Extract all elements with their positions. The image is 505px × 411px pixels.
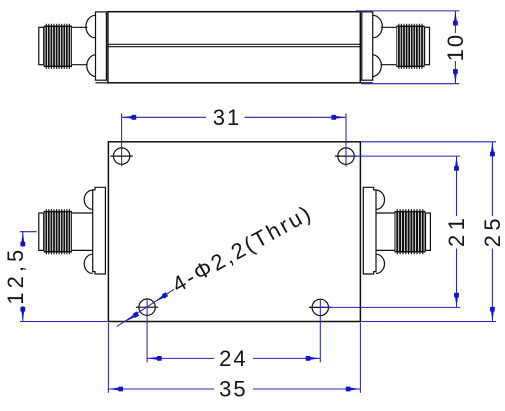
dimension 21 arrow up — [454, 156, 459, 171]
dimension 12,5 line — [22, 232, 24, 322]
main view right flange dome top — [376, 190, 385, 209]
dimension 10 line — [454, 11, 456, 84]
dimension 25 arrow up — [490, 142, 495, 157]
svg-text:12,5: 12,5 — [3, 246, 28, 305]
side view right connector flange dome top — [373, 15, 383, 38]
main view body — [108, 142, 360, 322]
mounting hole TR — [338, 148, 354, 164]
dimension 12,5 extension bottom — [20, 321, 108, 323]
dimension 35 arrow right — [346, 387, 361, 392]
dimension 21 extension bottom (from hole BR) — [320, 306, 460, 308]
main view left connector threads — [44, 211, 72, 253]
svg-text:31: 31 — [213, 105, 241, 130]
main view left connector end cap — [39, 213, 44, 250]
dimension 12,5 arrow down — [20, 307, 25, 322]
dimension 31 extension right (through hole TR) — [345, 113, 347, 166]
mounting hole TL — [113, 148, 129, 164]
side view left connector end cap — [39, 27, 44, 64]
side view body bottom lip left — [96, 82, 108, 84]
dimension 31 arrow left — [122, 115, 137, 120]
side view body bottom lip right — [360, 82, 372, 84]
main view right connector barrel — [376, 213, 395, 250]
side view right end plate — [362, 12, 373, 80]
side view right connector barrel — [381, 27, 397, 64]
side view left connector threads — [44, 26, 72, 68]
svg-text:21: 21 — [444, 214, 469, 247]
dimension 24 arrow right — [306, 356, 321, 361]
dimension 10 extension line top — [356, 10, 459, 12]
main view left connector flange plate — [93, 187, 106, 274]
leader arrow at hole edge — [153, 292, 168, 304]
dimension 31 line — [122, 116, 346, 118]
main view right flange dome bottom — [376, 254, 385, 273]
side view left end plate — [96, 12, 107, 80]
dimension 25 arrow down — [490, 307, 495, 322]
side view right connector end cap — [425, 27, 430, 64]
dimension 35 arrow left — [108, 387, 123, 392]
dimension 31 arrow right — [331, 115, 346, 120]
dimension 10 arrow down — [453, 69, 458, 84]
side view right connector flange dome bottom — [373, 55, 382, 77]
mounting hole BR — [312, 299, 328, 315]
dimension 25 extension top (body top edge) — [361, 141, 496, 143]
dimension 35 extension right — [359, 323, 361, 393]
main view left connector barrel — [72, 213, 93, 250]
main view right connector flange plate — [363, 187, 376, 274]
leader arrow outer — [124, 311, 139, 323]
dimension 31 extension left (through hole TL) — [121, 113, 123, 166]
dimension 24 arrow left — [147, 356, 162, 361]
dimension 21 line — [456, 156, 458, 307]
hole BL center mark — [136, 306, 158, 308]
hole TR center mark — [335, 155, 357, 157]
dimension 24 extension right (below hole BR) — [319, 299, 321, 362]
main view left flange dome bottom — [84, 254, 93, 273]
svg-text:10: 10 — [443, 33, 468, 61]
svg-text:35: 35 — [219, 376, 247, 401]
dimension 24 extension left (below hole BL) — [146, 299, 148, 362]
dimension 25 line — [491, 142, 493, 322]
side view left connector barrel — [72, 27, 88, 64]
main view left flange dome top — [84, 190, 93, 209]
dimension 35 line — [108, 388, 360, 390]
dimension 21 extension top (from hole TR) — [346, 155, 460, 157]
dimension 12,5 extension top (connector centerline) — [20, 231, 37, 233]
hole TL center mark — [110, 155, 132, 157]
main view right connector threads — [395, 211, 426, 253]
leader line for hole callout — [117, 289, 174, 326]
dimension 25 extension bottom (body bottom edge) — [361, 321, 496, 323]
dimension 12,5 arrow up — [20, 232, 25, 247]
side view left connector flange dome top — [86, 15, 96, 38]
side view left connector flange dome bottom — [87, 55, 96, 77]
mounting hole BL — [139, 299, 155, 315]
dimension 21 arrow down — [454, 293, 459, 308]
main view right connector end cap — [426, 213, 431, 250]
dimension 10 extension line bottom — [361, 83, 459, 85]
dimension 24 line — [147, 357, 320, 359]
side view body — [108, 12, 360, 83]
hole BR center mark — [309, 306, 331, 308]
side view right connector threads — [396, 26, 424, 68]
svg-text:24: 24 — [219, 346, 247, 371]
side view body seam lines — [108, 44, 360, 46]
dimension 35 extension left — [107, 323, 109, 393]
dimension 10 arrow up — [453, 11, 458, 26]
svg-text:4-Φ2,2(Thru): 4-Φ2,2(Thru) — [168, 200, 317, 298]
svg-text:25: 25 — [480, 214, 505, 247]
